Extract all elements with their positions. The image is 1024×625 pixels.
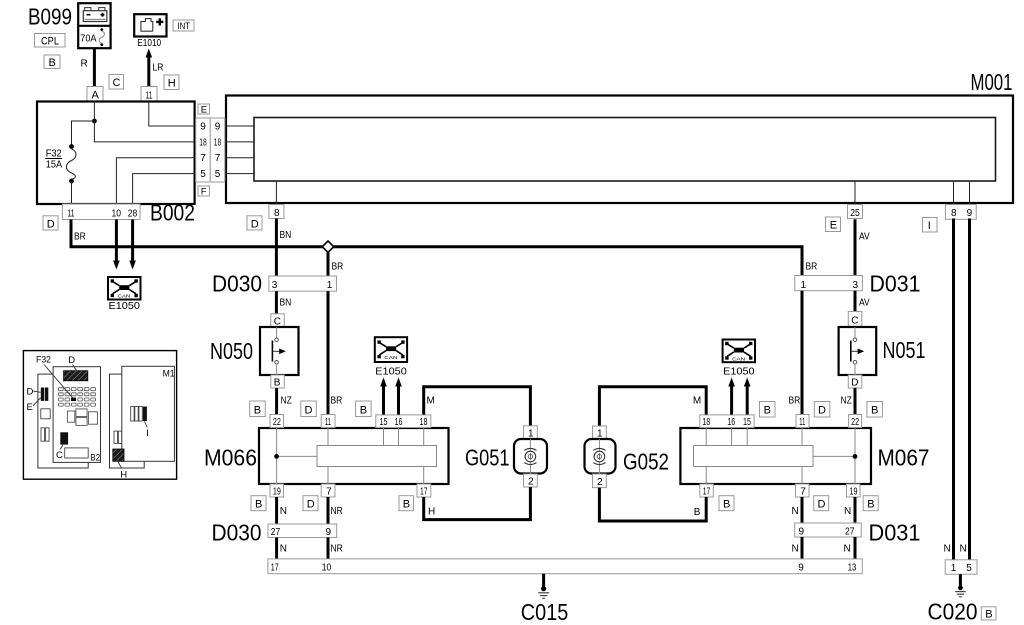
svg-text:1: 1 [528,428,534,439]
pin 8 of M001 [269,205,284,219]
svg-text:N: N [844,544,851,555]
label CPL [35,34,66,48]
window motor M066 [204,428,449,484]
svg-text:27: 27 [845,526,854,537]
svg-text:B: B [985,609,992,621]
svg-text:M: M [427,396,435,407]
connector D031 bottom [795,520,921,546]
svg-text:9: 9 [326,527,332,538]
wire NZ N051 to M067 pin22 [841,388,856,416]
wire N D031 to C015 pin9 [792,537,803,559]
svg-text:D: D [251,218,259,230]
window motor M067 [680,428,929,484]
wire row 9 [195,125,254,127]
svg-text:N: N [280,506,287,517]
pin 11 of M066 [321,415,335,428]
inset left bracket panel [38,374,88,468]
svg-text:BR: BR [789,395,801,406]
svg-text:17: 17 [271,561,279,572]
svg-text:BR: BR [74,231,86,242]
svg-text:17: 17 [703,485,711,497]
svg-text:B: B [360,404,367,416]
connector D031 top [795,271,921,297]
svg-text:G051: G051 [465,446,509,472]
svg-text:8: 8 [274,208,280,219]
svg-text:11: 11 [68,207,75,219]
svg-text:D: D [47,218,55,230]
switch N051 [839,312,926,389]
svg-text:11: 11 [146,89,153,101]
svg-text:AV: AV [859,231,870,242]
wire BR diamond to D030 pin1 [328,252,344,276]
svg-text:25: 25 [850,207,859,218]
battery B099 [78,3,110,48]
inset label D [27,386,41,397]
svg-text:7: 7 [215,153,221,164]
wire fuse to pin 11 [71,181,73,204]
node junction B002 [92,119,97,124]
svg-text:1: 1 [327,280,333,291]
svg-text:H: H [168,78,176,90]
junction diamond on BR bus [322,241,333,252]
svg-text:CAN: CAN [732,357,745,362]
CAN node E1050 mid-right [723,340,755,378]
body computer M001 [226,71,1013,203]
pin 19 of M066 [270,484,284,497]
wire NZ N050 to M066 pin22 [277,388,293,415]
svg-text:B: B [403,499,410,511]
svg-text:19: 19 [273,485,281,496]
svg-text:R: R [81,59,88,70]
svg-text:D: D [851,378,858,389]
ground symbol C015 [538,574,549,599]
label D left of M067 pin11 [814,402,830,418]
svg-text:BN: BN [280,229,292,240]
svg-text:CPL: CPL [41,36,59,48]
svg-text:BR: BR [331,395,343,406]
inset relay squares [67,409,97,426]
svg-text:LR: LR [153,62,164,73]
label B below M066 pin17 [399,496,414,511]
label B below M066 pin19 [251,496,266,511]
svg-text:11: 11 [799,416,805,427]
wire arrow M067 pin15 to E1050 [744,378,751,415]
svg-text:17: 17 [420,485,428,497]
svg-text:B: B [723,499,730,511]
svg-text:C: C [274,317,281,328]
ground symbol C020 [955,574,965,597]
ground connector C015 [268,559,862,625]
label B right of M067 pin22 [867,402,883,418]
svg-text:N: N [944,544,951,555]
svg-text:N: N [960,544,967,555]
inset bottom slot [65,448,89,458]
earth point E1010 [134,14,166,48]
fuse box B002 [37,102,195,226]
svg-text:9: 9 [967,208,973,219]
pin 25 of M001 [848,205,863,219]
lamp G052 [585,426,669,488]
svg-text:5: 5 [200,169,206,180]
label D below M066 pin7 [303,496,318,511]
svg-text:18: 18 [199,136,207,148]
svg-text:16: 16 [727,416,735,427]
svg-text:D: D [818,405,826,417]
svg-text:D030: D030 [212,271,262,297]
wire M001 pin 25 internal [854,181,856,204]
inset right back panel [110,374,145,468]
svg-text:E1050: E1050 [109,301,141,312]
svg-text:NR: NR [331,543,344,554]
svg-text:10: 10 [112,208,121,219]
svg-text:F: F [201,186,207,197]
pin 7 of M067 [796,484,810,498]
svg-text:5: 5 [215,169,221,180]
svg-text:I: I [146,428,149,439]
inset label F32 pointer [36,354,73,398]
wire BN D030 to N050 [276,291,291,314]
svg-text:28: 28 [128,208,137,219]
M066 internal wires [274,428,424,484]
svg-text:22: 22 [851,416,859,427]
svg-text:16: 16 [395,416,403,427]
svg-text:D: D [27,386,34,397]
label B at C020 [981,607,996,621]
svg-text:BN: BN [280,297,292,308]
inset label D pointer [68,355,78,372]
wire AV M001 pin25 to D031 [855,219,870,275]
wire R [81,48,95,86]
svg-text:A: A [92,90,100,102]
label E at M001 pin 25 [826,217,841,232]
svg-text:D031: D031 [870,271,921,297]
pin 17 of M067 [700,484,714,497]
wire row 5 [195,173,254,175]
svg-text:N: N [844,506,851,517]
svg-text:7: 7 [326,487,332,498]
pin 11 of B002 [141,87,157,102]
svg-text:2: 2 [597,477,603,488]
svg-text:B: B [871,405,878,417]
svg-text:CAN: CAN [384,356,397,361]
svg-text:C: C [113,77,121,89]
CAN node E1050 mid-left [375,337,407,377]
svg-text:9: 9 [799,526,805,537]
svg-text:15: 15 [743,416,751,427]
svg-text:1: 1 [597,429,603,440]
svg-text:3: 3 [853,280,859,291]
svg-text:B099: B099 [28,5,72,30]
M067 inner module [694,446,814,467]
svg-text:1: 1 [801,280,807,291]
svg-text:BR: BR [806,261,818,272]
svg-text:G052: G052 [623,450,669,475]
svg-text:B: B [694,507,701,518]
svg-text:C: C [851,316,858,327]
wire arrow M067 pin16 to E1050 [728,378,735,415]
svg-text:7: 7 [800,487,806,498]
wire M G052 pin1 to M067 pin18 [599,387,706,426]
label F connector [198,186,210,197]
svg-text:F32: F32 [46,148,62,159]
pin 19 of M067 [847,484,861,497]
pins 15 16 18 of M066 [376,415,431,428]
label B below M067 pin17 [719,496,734,511]
pin 17 of M066 [417,484,431,497]
svg-text:D: D [305,404,313,416]
label I at M001 pins 8/9 [923,218,938,233]
svg-text:B: B [274,378,281,389]
inset label E [27,398,41,413]
svg-text:D: D [307,499,315,511]
wire BR D030 pin1 to M066 pin11 [328,291,343,414]
connector D030 top [212,271,337,297]
wire BN M001 pin8 to D030 [276,219,291,277]
svg-text:INT: INT [178,20,191,31]
svg-text:NR: NR [331,505,344,516]
pin 22 of M067 [849,415,862,428]
svg-text:C: C [56,450,63,461]
wire pin 28 to row 5 [133,174,195,204]
inset connector H dark [113,449,128,480]
CAN node E1050 [108,277,141,312]
label B right of M067 pin15 [760,402,776,418]
pins 8 9 of M001 [945,205,976,220]
label E connector [198,104,210,115]
svg-text:H: H [120,469,127,480]
svg-text:N051: N051 [883,338,926,364]
connector column E/F pins 9 18 7 5 [196,118,225,182]
svg-text:E: E [201,104,207,115]
location inset panel [23,351,176,480]
svg-text:10: 10 [322,562,331,573]
svg-text:8: 8 [951,208,957,219]
svg-text:1: 1 [951,563,957,574]
wire H G051 pin2 to M066 pin17 [424,487,531,520]
inset module M1 [122,366,175,461]
svg-text:E: E [27,402,33,413]
svg-text:NZ: NZ [841,395,853,406]
svg-text:B: B [867,499,874,511]
svg-text:19: 19 [850,485,858,496]
svg-text:D030: D030 [212,520,262,546]
svg-text:9: 9 [215,122,221,133]
svg-text:E1050: E1050 [375,367,407,378]
inset connector C dark [56,432,68,461]
inset fuse grid [59,388,96,406]
svg-text:22: 22 [273,416,281,427]
wire BR bus from B002 pin 11 [71,220,802,277]
svg-text:H: H [428,507,435,518]
wire N M067 pin19 to D031 [844,497,855,523]
pins 18 16 15 of M067 [700,415,754,428]
label B left of M066 pin22 [250,401,266,417]
svg-text:B002: B002 [150,201,195,226]
ground connector C020 [928,560,978,625]
svg-text:7: 7 [200,153,206,164]
M066 inner module [317,446,437,467]
svg-text:N: N [792,544,799,555]
pin 7 of M066 [321,484,335,498]
wire node to row 18 [94,121,194,142]
B002 bottom pin strip pins 11 10 28 [62,204,140,220]
label H [164,75,179,90]
wire M M066 pin18 to G051 pin1 [424,387,531,426]
label D [43,216,58,231]
inset fusebox panel B2 [53,367,100,463]
svg-text:M1: M1 [163,368,175,378]
svg-text:M001: M001 [971,71,1013,96]
svg-text:18: 18 [420,416,428,427]
wire row 18 [195,141,254,143]
svg-text:B: B [254,404,261,416]
wire BR D031 pin1 to M067 pin11 [789,291,803,415]
wire N M001 pin9b to C020 pin5 [968,219,971,560]
wire arrow M066 pin15 to E1050 [380,378,387,415]
wire N M001 pin8b to C020 pin1 [952,219,955,560]
M067 internal wires [706,428,857,484]
svg-text:18: 18 [214,136,222,148]
svg-text:B: B [49,57,56,69]
svg-text:E1050: E1050 [723,367,755,378]
pin 11 of M067 [796,415,809,428]
svg-text:N: N [280,544,287,555]
svg-text:18: 18 [702,416,710,427]
wire row 7 [195,157,254,159]
wire N M066 pin19 to D030 [277,497,287,524]
wire AV D031 pin3 to N051 [855,291,870,312]
label D left of M066 pin11 [301,401,317,417]
svg-text:NZ: NZ [281,395,293,406]
svg-text:M067: M067 [878,445,930,471]
svg-text:D: D [68,355,75,366]
wire M001 pin 8b internal [953,181,955,204]
svg-text:9: 9 [200,122,206,133]
svg-text:70A: 70A [80,33,97,45]
svg-text:CAN: CAN [118,294,131,299]
wire N M067 pin7 to D031 [792,497,803,523]
switch N050 [210,314,299,389]
svg-text:B2: B2 [90,452,100,463]
wire N D030 to C015 pin17 [277,538,287,560]
svg-text:D031: D031 [869,520,921,546]
label D at M001 pin 8 [247,216,262,231]
pin 22 of M066 [270,415,284,428]
lamp G051 [465,426,547,488]
svg-text:AV: AV [859,297,870,308]
pin A of B002 [87,87,103,102]
svg-text:I: I [928,220,931,232]
svg-text:11: 11 [325,416,331,427]
svg-text:F32: F32 [36,354,51,364]
wire pin 10 to row 7 [116,158,194,204]
inset connector I [131,407,149,440]
svg-text:5: 5 [966,563,972,574]
svg-text:C015: C015 [521,600,569,625]
fuse F32 15A [45,144,76,183]
svg-text:E: E [830,220,837,232]
wires CAN to E1050 with arrows [113,220,136,270]
wire NR M066 pin7 to D030 [328,497,343,524]
wire pin 11 top to row 9 [149,102,195,127]
wire node to fuse F32 [72,121,95,146]
M001 inner module [254,118,996,182]
svg-text:D: D [818,499,826,511]
wire N D031 to C015 pin13 [844,537,856,559]
wire M001 pin 9b internal [969,181,971,204]
svg-text:B: B [255,499,262,511]
svg-text:M066: M066 [204,445,257,471]
svg-text:E1010: E1010 [137,37,161,48]
svg-text:2: 2 [528,477,534,488]
svg-text:13: 13 [848,562,857,573]
wire LR with arrow to E1010 [146,49,164,87]
label INT [173,20,194,31]
svg-text:M: M [693,396,701,407]
label B below M067 pin19 [863,496,878,511]
svg-text:B: B [764,405,771,417]
svg-text:N050: N050 [210,339,253,365]
label C [109,75,124,90]
svg-text:C020: C020 [928,599,978,625]
wire M001 pin 8 internal [275,181,277,204]
wire B G052 pin2 to M067 pin17 [599,488,706,521]
svg-text:15: 15 [380,416,388,427]
wire NR D030 to C015 pin10 [328,538,343,560]
label D below M067 pin7 [814,496,829,511]
label B left of M066 pin15 [356,401,372,417]
svg-text:15A: 15A [46,159,63,170]
svg-text:N: N [792,506,799,517]
svg-text:3: 3 [272,280,278,291]
wire A to node inside B002 [93,102,95,122]
connector D030 bottom [212,520,337,546]
label B [44,55,60,69]
svg-text:9: 9 [798,563,804,574]
svg-text:27: 27 [271,526,280,537]
svg-text:BR: BR [332,261,344,272]
wire arrow M066 pin16 to E1050 [395,378,402,415]
